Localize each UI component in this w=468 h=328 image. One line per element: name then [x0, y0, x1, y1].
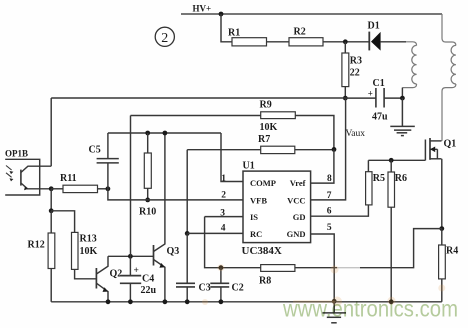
capacitor C1: [345, 78, 402, 123]
wire VFB (pin2): [108, 189, 243, 200]
wire pin4 stub: [187, 232, 243, 234]
resistor R8: [259, 229, 442, 287]
svg-text:5: 5: [327, 223, 332, 233]
node junction dot C2 bottom: [219, 299, 224, 304]
svg-text:VCC: VCC: [287, 196, 305, 206]
transformer primary winding: [402, 42, 416, 88]
svg-text:COMP: COMP: [250, 178, 276, 188]
node junction dot R6 bottom: [389, 299, 394, 304]
svg-text:2: 2: [221, 190, 226, 200]
capacitor C5: [89, 133, 119, 189]
svg-text:10K: 10K: [260, 122, 278, 133]
svg-text:R3: R3: [350, 56, 362, 67]
svg-text:www.entronics.com: www.entronics.com: [282, 296, 458, 322]
svg-text:R6: R6: [395, 173, 407, 184]
svg-text:R4: R4: [446, 246, 458, 257]
ground symbol bottom: [323, 301, 347, 323]
svg-text:C5: C5: [89, 145, 101, 156]
watermark residue flares: [202, 264, 445, 306]
svg-text:4: 4: [221, 223, 226, 233]
svg-text:8: 8: [327, 174, 332, 184]
resistor R3: [342, 42, 362, 98]
optocoupler OP1B: [5, 149, 51, 196]
svg-text:R11: R11: [60, 173, 77, 184]
svg-text:Vaux: Vaux: [346, 129, 366, 139]
node junction dot Q3 collector riser: [163, 131, 168, 136]
svg-text:VFB: VFB: [250, 196, 267, 206]
wire IS sense (pin3 via R8): [205, 217, 261, 268]
node junction dot Q3 emitter: [163, 299, 168, 304]
capacitor C4: [120, 256, 157, 302]
node junction dot Q1 source / R4 / sense: [439, 226, 444, 231]
svg-text:IS: IS: [250, 212, 258, 222]
node junction dot C2 top / R8 wire: [219, 265, 224, 270]
wire RC riser (R7 left to pin4/C3): [186, 150, 188, 234]
wire Vaux rail left: [51, 97, 345, 99]
svg-text:RC: RC: [250, 229, 262, 239]
svg-text:6: 6: [327, 206, 332, 216]
capacitor C3: [176, 283, 211, 302]
wire C5/R10 top rail: [108, 132, 221, 134]
svg-text:R8: R8: [259, 276, 271, 287]
resistor R9: [131, 100, 334, 150]
svg-text:R9: R9: [260, 100, 272, 111]
resistor R11: [51, 173, 108, 193]
svg-text:R2: R2: [294, 27, 306, 38]
wire pin7 VCC stub and Vaux riser: [311, 98, 346, 200]
resistor R2: [289, 27, 323, 46]
node junction dot HV+/R1: [219, 12, 224, 17]
svg-text:Vref: Vref: [290, 178, 306, 188]
svg-text:HV+: HV+: [193, 4, 212, 14]
node junction dot C3 bottom: [185, 299, 190, 304]
svg-text:10K: 10K: [80, 246, 98, 257]
wire Q1 source down to sense node: [441, 159, 443, 229]
wire pin5 GND stub and riser to ground: [311, 234, 335, 301]
svg-text:22u: 22u: [141, 285, 157, 296]
capacitor C2: [210, 268, 243, 302]
svg-text:Q3: Q3: [167, 246, 180, 257]
svg-text:47u: 47u: [372, 112, 388, 123]
resistor R13: [72, 232, 98, 278]
wire gate rail: [368, 159, 425, 161]
node junction dot R2/R3: [343, 39, 348, 44]
IC U1 UC384X: [242, 161, 311, 258]
wire pin6 GD stub: [311, 205, 369, 216]
wire R1 to R2: [267, 41, 290, 43]
node junction dot R10 top: [145, 131, 150, 136]
wire primary bottom to C1 junction: [401, 88, 403, 99]
wire Q2 collector to Q3 base: [108, 255, 154, 257]
node junction dot C4 bottom: [128, 299, 133, 304]
svg-text:C4: C4: [142, 274, 154, 285]
svg-text:R1: R1: [228, 28, 240, 39]
resistor R5: [366, 160, 385, 205]
node junction dot opto emitter / R11 / R12: [49, 186, 54, 191]
svg-text:D1: D1: [368, 21, 380, 32]
wire COMP riser (pin1 to C5 rail): [221, 133, 243, 182]
mosfet Q1: [425, 138, 456, 160]
resistor R10: [139, 133, 156, 218]
node junction dot ground rail: [332, 299, 337, 304]
node junction dot pin4/RC: [185, 231, 190, 236]
node junction dot R10 bottom / VFB wire: [145, 198, 150, 203]
svg-text:U1: U1: [243, 161, 255, 172]
node junction dot R3/C1/Vaux: [343, 96, 348, 101]
node junction dot C1/ground: [400, 96, 405, 101]
wire R9 left riser: [130, 116, 132, 257]
svg-text:OP1B: OP1B: [5, 149, 28, 159]
wire ground rail bottom: [51, 301, 442, 303]
resistor R1: [228, 28, 267, 46]
diode D1: [368, 21, 407, 51]
transformer secondary winding: [442, 14, 456, 141]
wire riser from HV+ dot to R1 row: [221, 14, 232, 42]
node junction dot Q2 collector / C4 / R9 riser: [128, 254, 133, 259]
ground below C1: [390, 98, 415, 136]
wire left riser to optocoupler collector: [50, 98, 52, 166]
resistor R7: [187, 134, 334, 154]
wire HV+ top rail: [181, 13, 442, 15]
svg-text:UC384X: UC384X: [242, 245, 282, 257]
svg-text:+: +: [368, 88, 373, 98]
svg-text:GND: GND: [287, 229, 306, 239]
svg-text:R12: R12: [28, 240, 45, 251]
svg-text:GD: GD: [293, 212, 306, 222]
resistor R6: [388, 160, 407, 301]
wire riser to C3: [186, 233, 188, 283]
node junction dot R12/R13: [49, 208, 54, 213]
figure number 2 circled: [155, 27, 174, 46]
svg-text:C2: C2: [232, 283, 244, 294]
node junction dot Q2 emitter: [106, 299, 111, 304]
wire pin8 Vref stub and riser: [311, 149, 334, 183]
svg-text:C3: C3: [199, 283, 211, 294]
wire R2 to D1: [323, 41, 369, 43]
transistor Q2: [96, 256, 122, 302]
node junction dot R11/C5/pin2: [106, 186, 111, 191]
svg-text:1: 1: [221, 174, 226, 184]
svg-text:R7: R7: [258, 134, 270, 145]
resistor R4: [439, 229, 459, 302]
svg-text:2: 2: [161, 31, 168, 46]
wire to R13 top: [51, 211, 74, 233]
svg-text:+: +: [134, 266, 139, 276]
svg-text:R5: R5: [373, 173, 385, 184]
node junction dot gate/R6: [389, 158, 394, 163]
wire opto dot down to R12/R13: [50, 189, 52, 211]
resistor R12: [28, 211, 55, 302]
transistor Q3: [154, 133, 180, 302]
svg-text:22: 22: [350, 68, 360, 79]
node junction dot Vref/R7/R9: [332, 147, 337, 152]
svg-text:R10: R10: [139, 207, 156, 218]
svg-text:Q2: Q2: [110, 269, 123, 280]
svg-text:R13: R13: [80, 234, 97, 245]
svg-text:Q1: Q1: [444, 139, 457, 150]
svg-text:C1: C1: [373, 78, 385, 89]
